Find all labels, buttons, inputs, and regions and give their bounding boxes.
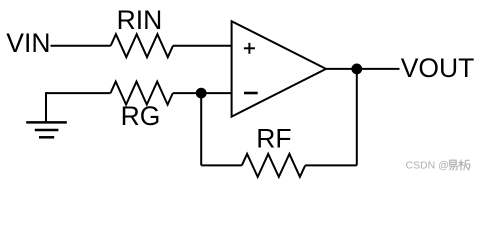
- ground: [26, 92, 67, 137]
- svg-text:VOUT: VOUT: [401, 53, 475, 83]
- svg-text:RG: RG: [121, 101, 161, 131]
- svg-text:CSDN @: CSDN @: [406, 160, 449, 172]
- resistor RG: [111, 82, 173, 105]
- resistor RF: [242, 154, 305, 177]
- node junction at output: [351, 64, 362, 75]
- op-amp minus input marker: [244, 92, 258, 95]
- svg-text:RIN: RIN: [117, 5, 163, 35]
- op-amp U1: [232, 21, 326, 116]
- wire: [201, 164, 242, 166]
- watermark CSDN: [406, 160, 470, 172]
- wire: [356, 69, 358, 165]
- wire: [200, 93, 202, 165]
- svg-text:RF: RF: [256, 123, 291, 153]
- op-amp plus input marker: [244, 43, 255, 54]
- wire: [173, 45, 232, 47]
- node junction at inverting input: [196, 88, 207, 99]
- wire: [173, 92, 232, 94]
- resistor RIN: [111, 34, 173, 57]
- wire: [305, 164, 357, 166]
- svg-text:VIN: VIN: [6, 28, 50, 58]
- wire: [46, 92, 111, 94]
- wire: [51, 45, 111, 47]
- wire: [326, 68, 400, 70]
